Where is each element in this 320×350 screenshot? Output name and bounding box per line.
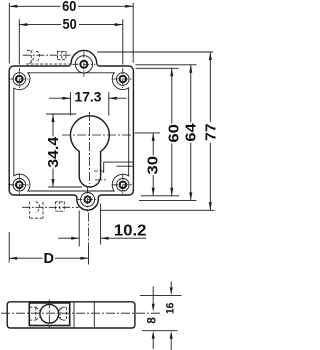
dim 16 arrows [170,287,173,295]
dim 34.4: ref lines [46,114,82,187]
cylinder horizontal centerline [62,134,132,136]
dashed mechanism top-left [26,50,71,64]
dim 34.4 arrows [52,114,55,122]
bottom ref line 2 [139,199,197,201]
euro cylinder keyhole [71,116,110,187]
dim 17.3: extension lines [70,92,108,116]
dim 77 arrows [209,52,212,60]
dim D: axis end segment [88,246,90,265]
side view horizontal centerline [1,312,162,314]
dim 60 right line [171,68,173,196]
dim 34.4: line [52,114,54,187]
axis centerline below plate [88,213,90,247]
top-left detail centerline [23,54,71,56]
dim 50 top: extension lines [19,19,123,64]
dim 10.2: left arrow tail & right line with label underline [58,237,146,239]
cylinder vertical centerline [89,112,91,184]
latch hidden tick [94,170,104,172]
dashed mechanism bottom-left [30,201,65,218]
dim 64 arrows [189,65,192,73]
svg-text:8: 8 [147,317,159,324]
svg-text:34.4: 34.4 [45,136,62,168]
dim 10.2: extension lines [79,204,100,247]
dim 60 right arrows [170,68,173,76]
dim 50 top: lines [19,24,123,26]
dim 60 arrows [9,5,17,8]
side view body [7,302,135,328]
dim 10.2 arrows [71,237,79,240]
bottom ref line 1 [141,195,179,197]
svg-text:60: 60 [62,0,76,15]
top tab hole [72,52,95,77]
dim 64 line [190,65,192,201]
dim 17.3: arrow tails [49,97,127,99]
dim D: left extension line [8,232,10,263]
svg-text:10.2: 10.2 [114,223,147,240]
svg-text:D: D [44,251,54,267]
svg-text:60: 60 [165,124,182,143]
ref line cylinder center right [135,132,161,134]
housing hidden profile lines [30,307,67,320]
bottom tab hole [76,188,99,212]
right ref line C (inner top) [136,67,179,69]
dim 16 line tails [170,282,172,350]
plate outline [9,50,133,210]
cap center tick [95,179,107,181]
dim 60 top: lines [9,5,133,7]
corner hole bottom-left [8,174,30,196]
dim 60 top: extension lines [9,3,133,64]
dim 17.3 arrows [62,97,70,100]
housing bore circle [40,304,59,323]
svg-text:16: 16 [164,303,176,315]
side view division lines [74,302,94,328]
svg-text:77: 77 [203,123,216,141]
svg-text:30: 30 [144,156,161,175]
dim 77 line [209,52,211,210]
housing vertical centerline [48,300,50,329]
svg-text:50: 50 [63,17,77,33]
inner contour (stepped plateau) [14,73,129,191]
arrows front view [9,5,212,260]
dim 8 line tails [152,287,154,350]
dim 30 line [152,133,154,196]
latch step lines right of stem [104,162,134,173]
svg-text:17.3: 17.3 [75,89,102,105]
dim 50 arrows [19,23,27,26]
cylinder housing [29,303,69,326]
dim 30 arrows [152,133,155,141]
dim D arrows [9,257,17,260]
svg-text:64: 64 [182,123,199,142]
dim D: lines [9,257,88,259]
corner hole bottom-right [112,174,134,196]
dim 8 and dim 16 extension lines [140,282,182,350]
right ref line A (tab top) [97,51,213,53]
right ref line B (plate top) [136,64,197,66]
corner hole top-left [8,68,30,90]
bottom-left detail centerline [22,206,79,208]
bottom ref line 3 (tab bottom) [100,209,215,211]
corner hole top-right [112,68,134,90]
dim 8 arrows [152,287,173,338]
